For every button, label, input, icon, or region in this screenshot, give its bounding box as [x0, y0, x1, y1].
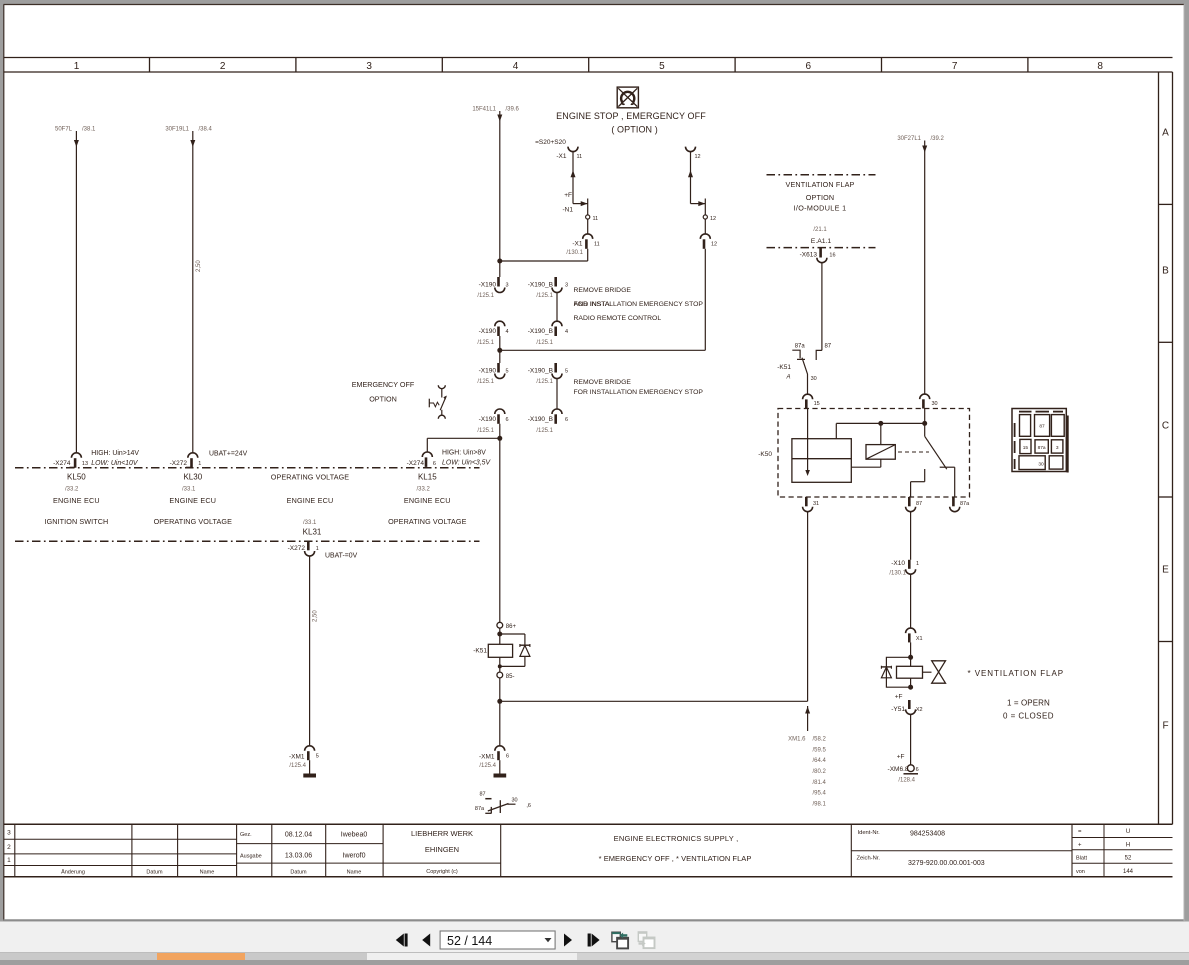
svg-text:Iwebea0: Iwebea0 — [341, 831, 368, 838]
svg-text:-X274: -X274 — [53, 460, 71, 467]
svg-text:4: 4 — [565, 329, 568, 335]
svg-text:LOW: Uin<3,5V: LOW: Uin<3,5V — [442, 459, 491, 466]
svg-text:=S20+S20: =S20+S20 — [535, 139, 566, 146]
svg-text:-X190: -X190 — [479, 282, 497, 289]
svg-text:KL31: KL31 — [303, 528, 322, 537]
svg-text:-X10: -X10 — [891, 560, 905, 567]
svg-text:Copyright (c): Copyright (c) — [426, 869, 458, 875]
svg-text:12: 12 — [710, 216, 716, 222]
svg-text:-X272: -X272 — [288, 545, 306, 552]
svg-text:/81.4: /81.4 — [813, 780, 827, 786]
svg-text:OPERATING VOLTAGE: OPERATING VOLTAGE — [154, 517, 232, 526]
svg-text:I/O-MODULE 1: I/O-MODULE 1 — [794, 203, 847, 212]
svg-text:EHINGEN: EHINGEN — [425, 845, 459, 854]
svg-text:30F19L1: 30F19L1 — [165, 127, 189, 133]
svg-text:3: 3 — [565, 283, 568, 289]
svg-text:REMOVE BRIDGE: REMOVE BRIDGE — [574, 379, 632, 386]
svg-text:/125.1: /125.1 — [477, 428, 494, 434]
svg-text:AND INSTA: AND INSTA — [574, 301, 610, 308]
svg-text:5: 5 — [659, 61, 665, 72]
svg-text:6: 6 — [433, 461, 436, 467]
svg-text:ENGINE ELECTRONICS SUPPLY ,: ENGINE ELECTRONICS SUPPLY , — [614, 834, 739, 843]
svg-text:-X190: -X190 — [479, 328, 497, 335]
svg-text:-K50: -K50 — [758, 451, 772, 458]
svg-text:HIGH: Uin>14V: HIGH: Uin>14V — [91, 450, 139, 457]
svg-text:* EMERGENCY OFF , * VENTILATIO: * EMERGENCY OFF , * VENTILATION FLAP — [599, 854, 752, 863]
svg-text:VENTILATION FLAP: VENTILATION FLAP — [786, 180, 855, 189]
svg-text:-X272: -X272 — [170, 460, 188, 467]
svg-text:30: 30 — [811, 376, 817, 382]
svg-text:RADIO REMOTE CONTROL: RADIO REMOTE CONTROL — [574, 315, 662, 322]
svg-text:-X190_B: -X190_B — [528, 328, 553, 335]
svg-text:11: 11 — [594, 241, 600, 247]
svg-text:87a: 87a — [475, 806, 485, 812]
svg-text:5: 5 — [506, 369, 509, 375]
svg-text:87: 87 — [824, 343, 831, 349]
svg-text:08.12.04: 08.12.04 — [285, 831, 312, 838]
svg-text:-XM6.8: -XM6.8 — [888, 766, 909, 773]
svg-text:6: 6 — [916, 767, 919, 773]
svg-text:-X1: -X1 — [556, 153, 567, 160]
svg-text:HIGH: Uin>8V: HIGH: Uin>8V — [442, 449, 486, 456]
svg-text:15F41L1: 15F41L1 — [472, 107, 496, 113]
svg-text:UBAT-=0V: UBAT-=0V — [325, 553, 358, 560]
svg-text:ENGINE ECU: ENGINE ECU — [53, 496, 100, 505]
svg-text:/130.1: /130.1 — [566, 250, 583, 256]
svg-text:7: 7 — [952, 61, 958, 72]
svg-text:-XM1: -XM1 — [289, 753, 305, 760]
svg-text:12: 12 — [695, 154, 701, 160]
svg-text:OPTION: OPTION — [806, 193, 834, 202]
svg-text:OPTION: OPTION — [369, 395, 397, 404]
svg-text:984253408: 984253408 — [910, 831, 945, 838]
svg-text:30: 30 — [932, 401, 938, 407]
svg-text:+: + — [1078, 842, 1082, 848]
svg-text:4: 4 — [506, 329, 509, 335]
svg-text:Blatt: Blatt — [1076, 856, 1087, 862]
svg-text:6: 6 — [565, 417, 568, 423]
svg-text:KL50: KL50 — [67, 473, 86, 482]
svg-text:X2: X2 — [916, 707, 923, 713]
svg-text:5: 5 — [565, 369, 568, 375]
svg-text:Datum: Datum — [290, 869, 307, 875]
svg-text:4: 4 — [513, 61, 519, 72]
svg-text:/33.2: /33.2 — [417, 486, 431, 492]
svg-text:von: von — [1076, 869, 1085, 875]
svg-text:3: 3 — [366, 61, 372, 72]
svg-text:/33.1: /33.1 — [182, 486, 196, 492]
svg-text:/125.1: /125.1 — [536, 428, 553, 434]
svg-text:REMOVE BRIDGE: REMOVE BRIDGE — [574, 287, 632, 294]
svg-text:-XM1: -XM1 — [479, 753, 495, 760]
svg-text:-K51: -K51 — [473, 648, 487, 655]
svg-text:1: 1 — [916, 561, 919, 567]
svg-text:52 / 144: 52 / 144 — [447, 934, 492, 948]
svg-text:A: A — [1162, 128, 1169, 139]
svg-text:ENGINE STOP , EMERGENCY OFF: ENGINE STOP , EMERGENCY OFF — [556, 111, 706, 121]
svg-text:C: C — [1162, 421, 1169, 432]
svg-text:/33.2: /33.2 — [65, 486, 79, 492]
svg-text:/98.1: /98.1 — [813, 801, 827, 807]
svg-text:87a: 87a — [1038, 445, 1046, 451]
svg-text:1: 1 — [7, 857, 11, 864]
svg-text:E.A1.1: E.A1.1 — [811, 238, 832, 245]
svg-text:H: H — [1126, 842, 1130, 848]
svg-text:-X190: -X190 — [479, 416, 497, 423]
svg-text:KL15: KL15 — [418, 473, 437, 482]
svg-text:Ident-Nr.: Ident-Nr. — [858, 830, 881, 836]
svg-text:12: 12 — [711, 241, 717, 247]
svg-text:50F7L: 50F7L — [55, 127, 73, 133]
svg-text:/125.1: /125.1 — [536, 293, 553, 299]
svg-text:/64.4: /64.4 — [813, 758, 827, 764]
svg-text:U: U — [1126, 829, 1130, 835]
svg-text:=: = — [1078, 829, 1082, 835]
svg-text:E: E — [1162, 565, 1169, 576]
svg-text:86+: 86+ — [506, 624, 517, 630]
svg-text:/59.5: /59.5 — [813, 747, 827, 753]
svg-text:30F27L1: 30F27L1 — [897, 136, 921, 142]
svg-text:/125.1: /125.1 — [477, 379, 494, 385]
svg-text:/128.4: /128.4 — [898, 778, 915, 784]
svg-text:-Y51: -Y51 — [891, 706, 905, 713]
svg-text:11: 11 — [593, 216, 599, 222]
svg-text:144: 144 — [1123, 869, 1134, 875]
svg-text:31: 31 — [813, 501, 819, 507]
svg-text:/33.1: /33.1 — [303, 520, 317, 526]
svg-text:-X190_B: -X190_B — [528, 416, 553, 423]
svg-text:B: B — [1162, 266, 1169, 277]
svg-text:-X190_B: -X190_B — [528, 282, 553, 289]
svg-text:Name: Name — [200, 869, 215, 875]
svg-text:3279-920.00.00.001-003: 3279-920.00.00.001-003 — [908, 860, 985, 867]
svg-text:FOR INSTALLATION EMERGENCY STO: FOR INSTALLATION EMERGENCY STOP — [574, 389, 704, 396]
svg-text:87a: 87a — [960, 501, 970, 507]
svg-text:/58.2: /58.2 — [813, 737, 827, 743]
svg-text:1 = OPERN: 1 = OPERN — [1007, 699, 1050, 708]
svg-text:2: 2 — [7, 844, 11, 851]
svg-text:/125.1: /125.1 — [477, 293, 494, 299]
svg-text:LOW: Uin<10V: LOW: Uin<10V — [91, 460, 139, 467]
svg-text:Gez.: Gez. — [240, 832, 252, 838]
svg-text:,6: ,6 — [526, 803, 531, 809]
svg-text:/130.1: /130.1 — [889, 571, 906, 577]
svg-text:/38.4: /38.4 — [199, 127, 213, 133]
svg-text:EMERGENCY OFF: EMERGENCY OFF — [352, 380, 415, 389]
svg-text:Zeich-Nr.: Zeich-Nr. — [857, 856, 881, 862]
svg-text:/125.1: /125.1 — [536, 340, 553, 346]
svg-text:/95.4: /95.4 — [813, 791, 827, 797]
svg-text:( OPTION ): ( OPTION ) — [611, 124, 658, 134]
svg-text:16: 16 — [829, 253, 835, 259]
svg-text:Iwerof0: Iwerof0 — [343, 853, 366, 860]
svg-text:KL30: KL30 — [183, 473, 202, 482]
svg-text:+F: +F — [897, 754, 905, 761]
svg-text:5: 5 — [316, 754, 319, 760]
svg-text:A: A — [785, 375, 790, 381]
svg-text:87: 87 — [479, 791, 485, 797]
svg-text:OPERATING VOLTAGE: OPERATING VOLTAGE — [388, 517, 466, 526]
svg-text:/38.1: /38.1 — [82, 127, 96, 133]
svg-text:85-: 85- — [506, 674, 515, 680]
svg-text:-X190: -X190 — [479, 368, 497, 375]
svg-text:/39.6: /39.6 — [506, 107, 520, 113]
svg-text:30: 30 — [511, 797, 517, 803]
svg-text:1: 1 — [316, 546, 319, 552]
svg-text:F: F — [1162, 721, 1168, 732]
svg-text:OPERATING VOLTAGE: OPERATING VOLTAGE — [271, 473, 349, 482]
svg-text:Name: Name — [347, 869, 362, 875]
svg-text:87: 87 — [916, 501, 922, 507]
svg-text:/125.4: /125.4 — [479, 763, 496, 769]
svg-text:Ausgabe: Ausgabe — [240, 854, 262, 860]
svg-text:1: 1 — [198, 461, 201, 467]
svg-text:2,50: 2,50 — [196, 260, 202, 272]
svg-text:8: 8 — [1097, 61, 1103, 72]
svg-text:2: 2 — [220, 61, 226, 72]
svg-text:/80.2: /80.2 — [813, 769, 827, 775]
svg-text:-N1: -N1 — [563, 206, 574, 213]
svg-text:3: 3 — [1056, 445, 1059, 451]
svg-text:/39.2: /39.2 — [931, 136, 945, 142]
svg-text:87: 87 — [1039, 424, 1045, 430]
svg-text:11: 11 — [577, 154, 583, 160]
svg-text:Datum: Datum — [146, 869, 163, 875]
svg-text:30: 30 — [1038, 461, 1044, 467]
svg-text:ENGINE ECU: ENGINE ECU — [404, 496, 451, 505]
svg-text:-K51: -K51 — [777, 364, 791, 371]
svg-text:+F: +F — [895, 694, 903, 701]
svg-text:IGNITION SWITCH: IGNITION SWITCH — [45, 517, 109, 526]
svg-text:6: 6 — [506, 754, 509, 760]
svg-text:* VENTILATION FLAP: * VENTILATION FLAP — [968, 669, 1065, 678]
svg-text:X1: X1 — [916, 636, 923, 642]
svg-text:/125.4: /125.4 — [289, 763, 306, 769]
svg-text:-X190_B: -X190_B — [528, 368, 553, 375]
svg-text:3: 3 — [7, 829, 11, 836]
svg-text:XM1.6: XM1.6 — [788, 737, 806, 743]
svg-text:15: 15 — [1023, 445, 1029, 451]
svg-text:87a: 87a — [795, 344, 806, 350]
svg-text:1: 1 — [74, 61, 80, 72]
svg-text:2,50: 2,50 — [313, 610, 319, 622]
svg-text:-X274: -X274 — [407, 460, 425, 467]
svg-text:/125.1: /125.1 — [536, 379, 553, 385]
svg-text:6: 6 — [506, 417, 509, 423]
svg-text:/125.1: /125.1 — [477, 340, 494, 346]
svg-text:Änderung: Änderung — [61, 868, 85, 875]
svg-text:6: 6 — [806, 61, 812, 72]
svg-text:LIEBHERR WERK: LIEBHERR WERK — [411, 829, 473, 838]
svg-text:+F: +F — [564, 192, 572, 199]
svg-text:13: 13 — [82, 461, 88, 467]
svg-text:/21.1: /21.1 — [813, 227, 827, 233]
svg-text:-X613: -X613 — [800, 252, 818, 259]
svg-text:0 = CLOSED: 0 = CLOSED — [1003, 712, 1054, 721]
svg-text:3: 3 — [506, 283, 509, 289]
svg-text:UBAT+=24V: UBAT+=24V — [209, 451, 248, 458]
svg-text:-X1: -X1 — [572, 240, 583, 247]
svg-text:13.03.06: 13.03.06 — [285, 853, 312, 860]
svg-text:ENGINE ECU: ENGINE ECU — [287, 496, 334, 505]
svg-text:15: 15 — [814, 401, 820, 407]
svg-text:ENGINE ECU: ENGINE ECU — [169, 496, 216, 505]
svg-text:52: 52 — [1125, 856, 1132, 862]
